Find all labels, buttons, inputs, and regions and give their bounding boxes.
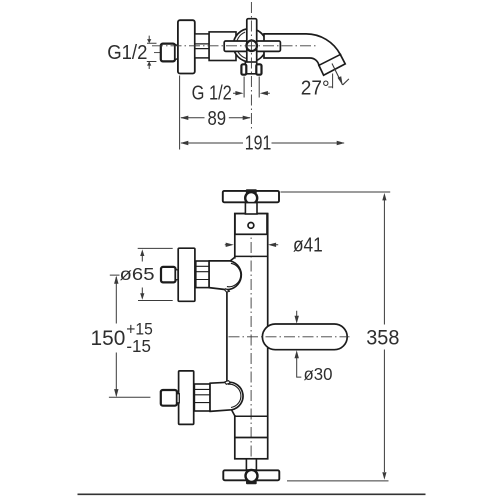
bottom border line [78,493,426,495]
lower dome bottom diagonal [232,410,235,416]
dimension G 1/2 (bottom outlet): extension lines [244,77,259,98]
svg-text:89: 89 [208,108,227,130]
upper dome inner arc [227,263,241,286]
svg-text:ø65: ø65 [120,264,155,284]
dimension 150 ticks [109,275,150,397]
inner shading arc [236,32,247,59]
main column body [235,214,268,459]
bottom boss circle [246,470,258,482]
lower dome top wedge [225,381,231,385]
lower wall flange (front view) [179,371,194,425]
centerline vertical (front view) [250,205,252,470]
lever centerline [229,336,350,338]
handle boss circle (front top) [245,192,257,204]
bottom cross handle bar [223,470,279,480]
spout end band line [318,54,341,66]
svg-text:G 1/2: G 1/2 [192,83,232,105]
upper union nut [196,261,209,288]
eccentric cone [175,44,178,59]
wider mid-body left edge [226,291,228,381]
bottom outlet tube (top view) [245,62,256,74]
cross handle vertical bar (top view) [247,19,257,65]
lower nipple step [177,394,179,403]
lower nut facet lines [194,389,210,402]
section line upper [235,255,268,257]
cap screw circle [248,223,254,229]
upper wall flange (front view) [178,248,195,301]
upper dome bottom wedge [225,289,230,292]
svg-text:-15: -15 [126,336,150,356]
upper dome top diagonal [230,257,234,261]
column cap section [235,214,267,235]
27 degree annotation: vertical reference line [328,74,332,89]
upper nut facet lines [196,266,209,279]
cover for hidden left edge [233,259,236,415]
dimension 358 line [383,200,385,472]
upper union dome [209,261,241,290]
dimension G1/2 (left nipple): ticks [147,43,157,61]
centerline vertical (handle axis, top view) [250,2,252,131]
27 degree annotation: axis line with arrow [332,64,343,86]
svg-text:358: 358 [366,326,399,349]
dimension o41 arrows [225,244,278,246]
outlet collar left [241,64,246,74]
dimension G 1/2 arrows [233,92,270,94]
top cross handle bar (front view) [223,191,279,202]
union nut (top view) [195,34,209,58]
lower section line [235,437,268,439]
wall flange (top view) [178,20,195,73]
cross handle horizontal bar (top view) [224,41,280,51]
extension line from wall face [179,76,181,150]
lower nipple [161,390,177,406]
upper nipple [161,267,176,283]
handle boss circle (top view) [246,41,257,52]
bottom handle cap [246,480,257,484]
lower union nut [194,384,210,411]
svg-text:ø41: ø41 [293,234,323,256]
dimension o65 arrows [141,255,143,295]
spout (top view) [264,34,345,75]
lever capsule [262,324,347,350]
dimension 191 line [181,142,344,144]
dimension 89 line [181,117,250,119]
dimension o65 extension lines [138,248,173,300]
svg-text:G1/2: G1/2 [107,42,147,64]
svg-text:191: 191 [245,133,271,155]
handle cap (top) [246,189,257,193]
27 degree annotation: barb [343,79,349,85]
dimension G1/2 arrows [148,36,150,69]
bottom stem [246,459,256,470]
wall nipple G1/2 (top view) [161,44,175,62]
nut facet lines [195,44,209,49]
body tube (top view) [209,32,236,61]
valve cap circle (top view) [233,29,266,62]
svg-text:150: 150 [91,326,126,350]
upper nipple step [176,270,178,280]
svg-text:ø30: ø30 [304,364,333,384]
centerline stub of wall nipple [154,52,164,54]
dimension 358 extension lines [281,192,391,481]
outlet collar right [256,64,261,74]
dimension 150 line [115,277,117,396]
lower dome inner arc [228,384,241,407]
handle stem (front top) [245,203,257,214]
lower union dome [210,382,243,411]
svg-text:27°: 27° [301,77,330,99]
centerline horizontal (main axis) [152,45,316,47]
section line below lower union [235,415,268,417]
dimension o30 arrows [297,311,302,377]
